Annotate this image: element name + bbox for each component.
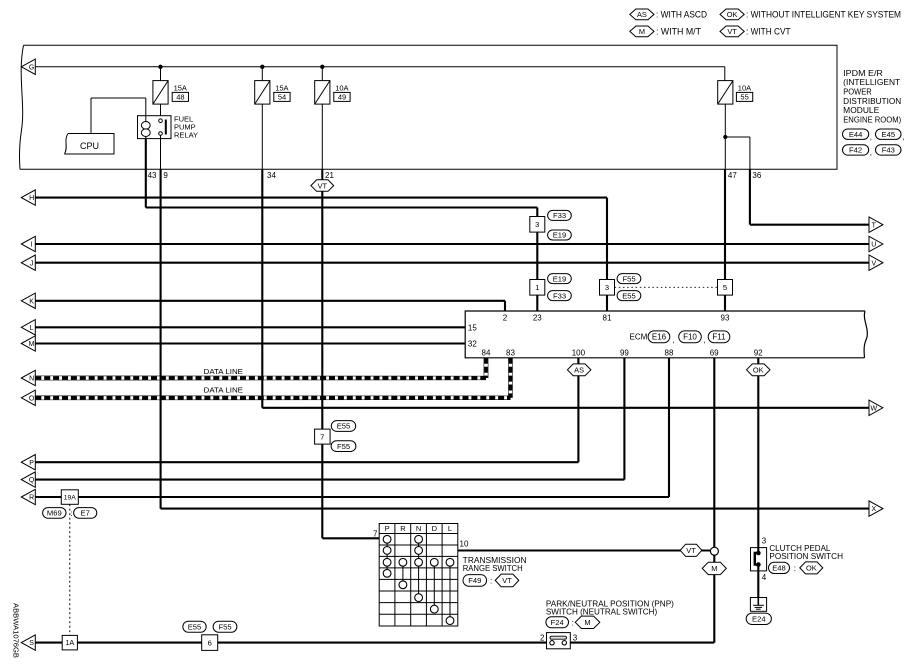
svg-text:E48: E48 — [772, 564, 786, 573]
svg-text:SWITCH (NEUTRAL SWITCH): SWITCH (NEUTRAL SWITCH) — [546, 607, 658, 616]
svg-text:M: M — [584, 618, 590, 627]
svg-text:N: N — [416, 524, 421, 533]
svg-text:F11: F11 — [712, 333, 726, 342]
svg-text:3: 3 — [605, 283, 609, 292]
svg-text:CPU: CPU — [80, 141, 99, 151]
svg-text:7: 7 — [373, 530, 378, 539]
svg-text:R: R — [400, 524, 406, 533]
svg-text:OK: OK — [753, 366, 764, 375]
svg-text:32: 32 — [468, 340, 477, 349]
svg-text:81: 81 — [603, 313, 612, 322]
svg-text:DISTRIBUTION: DISTRIBUTION — [843, 97, 901, 106]
svg-text:E24: E24 — [752, 615, 766, 624]
svg-text:VT: VT — [686, 546, 696, 555]
svg-text:,: , — [870, 148, 872, 157]
svg-text:DATA LINE: DATA LINE — [204, 369, 244, 376]
svg-text:Q: Q — [29, 477, 35, 484]
svg-text:OK: OK — [727, 10, 738, 19]
svg-text:E16: E16 — [652, 333, 667, 342]
svg-text:E19: E19 — [553, 274, 567, 283]
svg-text:6: 6 — [208, 638, 212, 647]
svg-text:E55: E55 — [337, 422, 351, 431]
svg-text:15: 15 — [468, 323, 477, 332]
svg-text:,: , — [870, 133, 872, 142]
svg-text:E44: E44 — [849, 130, 863, 139]
svg-text:E45: E45 — [882, 130, 896, 139]
svg-text:7: 7 — [320, 432, 324, 441]
svg-text:E55: E55 — [188, 622, 202, 631]
svg-text:3: 3 — [535, 220, 539, 229]
svg-text:: WITH ASCD: : WITH ASCD — [656, 9, 707, 19]
svg-text:19A: 19A — [64, 494, 77, 501]
svg-text:,: , — [704, 335, 706, 344]
svg-text:100: 100 — [572, 349, 586, 358]
svg-text:ECM: ECM — [630, 333, 648, 342]
svg-text:93: 93 — [721, 313, 730, 322]
svg-text:F33: F33 — [553, 211, 566, 220]
svg-text:34: 34 — [267, 171, 276, 180]
svg-text:H: H — [29, 195, 34, 202]
svg-text:10A: 10A — [335, 83, 348, 92]
svg-text::: : — [572, 618, 574, 627]
svg-text:F55: F55 — [337, 442, 350, 451]
svg-text:MODULE: MODULE — [843, 106, 879, 115]
svg-text:E55: E55 — [622, 291, 636, 300]
svg-text:J: J — [30, 260, 34, 267]
svg-text:I: I — [31, 242, 33, 249]
svg-text:10A: 10A — [738, 83, 751, 92]
svg-text:1A: 1A — [65, 638, 74, 647]
svg-text:5: 5 — [723, 283, 727, 292]
svg-text:M69: M69 — [47, 509, 62, 518]
svg-text:M: M — [29, 341, 35, 348]
svg-text:21: 21 — [325, 171, 334, 180]
svg-text:99: 99 — [620, 349, 629, 358]
svg-text:23: 23 — [533, 313, 542, 322]
svg-text:43: 43 — [148, 171, 157, 180]
svg-text:F43: F43 — [882, 146, 895, 155]
svg-text:P: P — [29, 460, 34, 467]
svg-text:36: 36 — [752, 171, 761, 180]
svg-text:N: N — [29, 376, 34, 383]
svg-text:D: D — [432, 524, 438, 533]
svg-text:G: G — [29, 64, 34, 71]
svg-text:55: 55 — [740, 93, 748, 102]
svg-text:F24: F24 — [551, 618, 564, 627]
svg-text:2: 2 — [540, 634, 545, 643]
svg-text:48: 48 — [176, 93, 184, 102]
svg-text:VT: VT — [502, 576, 512, 585]
svg-text:ABBWA1076GB: ABBWA1076GB — [12, 603, 21, 658]
svg-text:L: L — [448, 524, 452, 533]
svg-text:3: 3 — [573, 634, 578, 643]
svg-text:AS: AS — [574, 366, 584, 375]
svg-text:ENGINE ROOM): ENGINE ROOM) — [843, 115, 901, 124]
svg-text:F42: F42 — [849, 146, 862, 155]
svg-text:IPDM E/R: IPDM E/R — [843, 69, 883, 78]
svg-text:,: , — [673, 335, 675, 344]
svg-text:OK: OK — [806, 564, 817, 573]
svg-text:T: T — [872, 222, 877, 229]
svg-text:P: P — [385, 524, 390, 533]
svg-text:92: 92 — [754, 349, 763, 358]
svg-text:VT: VT — [727, 27, 737, 36]
svg-text:49: 49 — [338, 93, 346, 102]
svg-text:15A: 15A — [275, 83, 288, 92]
svg-text:: WITHOUT INTELLIGENT KEY SYST: : WITHOUT INTELLIGENT KEY SYSTEM — [746, 9, 901, 19]
svg-text:F55: F55 — [218, 622, 231, 631]
svg-text:47: 47 — [728, 171, 737, 180]
svg-text:: WITH CVT: : WITH CVT — [746, 26, 791, 36]
svg-text::: : — [794, 564, 796, 573]
svg-text:V: V — [871, 260, 876, 267]
svg-text:10: 10 — [460, 539, 469, 548]
svg-text:54: 54 — [278, 93, 286, 102]
svg-text::: : — [70, 509, 72, 518]
svg-text:2: 2 — [503, 313, 508, 322]
svg-text:84: 84 — [482, 349, 491, 358]
svg-text:F49: F49 — [468, 576, 481, 585]
svg-text:M: M — [711, 564, 717, 573]
svg-text:9: 9 — [163, 171, 168, 180]
svg-text:O: O — [29, 395, 35, 402]
svg-text::: : — [490, 576, 492, 585]
svg-text:M: M — [639, 27, 645, 36]
svg-text:1: 1 — [535, 283, 539, 292]
svg-text:3: 3 — [762, 537, 767, 546]
svg-text:15A: 15A — [174, 83, 187, 92]
svg-text:E19: E19 — [553, 231, 567, 240]
svg-text:L: L — [30, 325, 34, 332]
svg-text:K: K — [29, 298, 34, 305]
svg-text:W: W — [870, 405, 877, 412]
svg-text:POSITION SWITCH: POSITION SWITCH — [769, 552, 843, 561]
svg-text:69: 69 — [710, 349, 719, 358]
svg-text:F55: F55 — [622, 274, 635, 283]
svg-text:RANGE SWITCH: RANGE SWITCH — [463, 564, 523, 573]
svg-text:AS: AS — [637, 10, 647, 19]
svg-text:RELAY: RELAY — [174, 131, 198, 140]
svg-text:(INTELLIGENT: (INTELLIGENT — [843, 78, 900, 87]
svg-text:X: X — [871, 506, 876, 513]
svg-text:88: 88 — [665, 349, 674, 358]
svg-text:DATA LINE: DATA LINE — [204, 388, 244, 395]
svg-text:F10: F10 — [683, 333, 697, 342]
svg-text:POWER: POWER — [843, 88, 872, 97]
svg-text:S: S — [29, 640, 34, 647]
svg-text:4: 4 — [762, 573, 767, 582]
svg-text:U: U — [871, 242, 876, 249]
svg-text:,: , — [902, 133, 904, 142]
svg-text:R: R — [29, 495, 34, 502]
svg-text:F33: F33 — [553, 291, 566, 300]
svg-text:83: 83 — [506, 349, 515, 358]
svg-text:VT: VT — [318, 181, 328, 190]
svg-text:: WITH M/T: : WITH M/T — [656, 26, 701, 36]
svg-text:E7: E7 — [81, 509, 90, 518]
